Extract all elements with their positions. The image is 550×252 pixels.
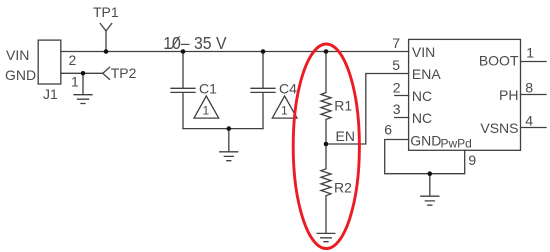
svg-text:10– 35 V: 10– 35 V [163, 33, 227, 53]
svg-text:9: 9 [468, 152, 476, 168]
svg-text:C1: C1 [199, 80, 217, 96]
svg-text:1: 1 [71, 74, 79, 90]
svg-text:2: 2 [69, 52, 77, 68]
svg-text:1: 1 [526, 45, 534, 61]
svg-text:TP2: TP2 [111, 65, 137, 81]
svg-text:1: 1 [281, 104, 288, 118]
svg-text:VIN: VIN [412, 44, 435, 60]
svg-text:GND: GND [410, 133, 441, 149]
svg-text:EN: EN [336, 128, 355, 144]
svg-text:PwPd: PwPd [441, 137, 472, 151]
svg-text:4: 4 [525, 112, 533, 128]
svg-text:VSNS: VSNS [480, 120, 518, 136]
svg-text:BOOT: BOOT [479, 53, 519, 69]
svg-text:6: 6 [384, 122, 392, 138]
svg-text:TP1: TP1 [93, 4, 119, 20]
svg-text:NC: NC [412, 88, 432, 104]
svg-text:GND: GND [5, 67, 36, 83]
svg-text:PH: PH [499, 87, 518, 103]
svg-text:7: 7 [392, 35, 400, 51]
svg-text:ENA: ENA [412, 66, 441, 82]
svg-text:NC: NC [412, 110, 432, 126]
svg-text:J1: J1 [43, 86, 58, 102]
svg-text:3: 3 [393, 101, 401, 117]
svg-text:1: 1 [203, 104, 210, 118]
svg-text:2: 2 [393, 80, 401, 96]
svg-text:5: 5 [392, 57, 400, 73]
svg-text:8: 8 [525, 80, 533, 96]
svg-text:C4: C4 [279, 80, 297, 96]
svg-text:R1: R1 [334, 97, 352, 113]
svg-text:VIN: VIN [6, 47, 29, 63]
svg-text:R2: R2 [334, 179, 352, 195]
